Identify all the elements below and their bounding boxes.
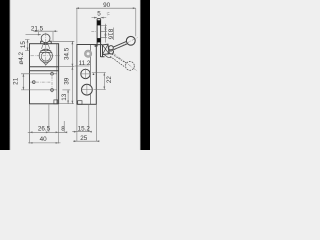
clevis foot (104, 55, 111, 58)
knob top ext line + arrow (26, 34, 41, 36)
inner right vertical line (56, 44, 58, 104)
svg-text:34.5: 34.5 (63, 47, 70, 60)
body section line 1 (30, 66, 59, 68)
front bottom ext lines (30, 105, 65, 144)
svg-text:16: 16 (107, 32, 114, 40)
11.2 leader underline (75, 65, 90, 67)
dim 5 lines (92, 17, 107, 19)
lever arm up (113, 41, 128, 50)
boss centerlines front view (dash-dot) (31, 55, 61, 57)
dim 15 line (27, 40, 29, 51)
dim 13 line (67, 90, 69, 104)
dim 8/6 line (104, 24, 106, 43)
svg-text:22: 22 (106, 76, 113, 84)
svg-text:15.2: 15.2 (78, 126, 91, 133)
svg-text:26.5: 26.5 (38, 126, 51, 133)
svg-text:5: 5 (97, 10, 101, 17)
svg-text:40: 40 (40, 136, 48, 143)
lever axis down (dash-dot) (109, 50, 138, 71)
hole left (32, 81, 35, 84)
dim 34.5/39 shared line (71, 41, 73, 103)
dim 21.5 line (34, 30, 58, 32)
dim 25 line (73, 140, 98, 142)
left black bar (0, 0, 9, 150)
port circle top (86, 51, 91, 56)
dashed lever arm down (110, 54, 126, 67)
mount plate (93, 45, 102, 47)
side body rect (77, 45, 96, 105)
dim 40 line (28, 142, 61, 144)
lever axis up (dash-dot) (105, 37, 138, 55)
stem (97, 19, 101, 47)
side inner vertical (89, 45, 91, 105)
stem centerline (dash-dot) (91, 31, 97, 33)
plunger washer lines (40, 51, 53, 53)
stem seal top (black) (97, 20, 101, 25)
svg-text:8: 8 (61, 126, 65, 133)
bottom-right notch (54, 100, 58, 104)
ball knob (126, 36, 135, 45)
dim 26.5/8 line (28, 131, 67, 133)
svg-text:21.5: 21.5 (31, 25, 44, 32)
dim 8/6 ext lines (101, 25, 107, 37)
ext 41.3 (52, 40, 74, 42)
svg-text:39: 39 (64, 77, 71, 85)
plunger stem (44, 42, 47, 44)
ext ticks (72, 41, 74, 103)
boss circle (39, 49, 52, 62)
svg-text:11.2: 11.2 (79, 60, 91, 67)
left hole centerline (dash-dot) (30, 81, 50, 83)
dashed ball (125, 62, 134, 71)
knob circle (41, 34, 50, 43)
tiny marks right of 5 (107, 12, 110, 15)
clevis cross braces (103, 44, 110, 54)
svg-text:25: 25 (80, 135, 88, 142)
top step recess (41, 41, 52, 44)
body section line 2 (30, 70, 59, 72)
plunger collar (42, 45, 50, 49)
mount column (101, 42, 105, 57)
port circle mid (81, 69, 90, 78)
dim 21 line (22, 74, 24, 90)
svg-text:15: 15 (20, 41, 27, 49)
svg-text:21: 21 (13, 77, 20, 85)
plunger bottom V (43, 62, 49, 65)
clevis block (103, 44, 110, 54)
pivot boss circles (109, 46, 114, 51)
dim 90 line (76, 7, 136, 9)
dim 15.2 line (72, 131, 91, 133)
stem seal bottom (black) (97, 38, 101, 42)
dim 90 ext lines (77, 9, 136, 44)
right holes centerline (dash-dot) (51, 71, 53, 94)
hole top-right (51, 72, 54, 75)
svg-text:13: 13 (61, 93, 68, 101)
port circle bottom (82, 84, 93, 95)
dim 21.5 arrows (35, 30, 56, 32)
body rect (30, 44, 59, 104)
side bottom-left notch (78, 101, 82, 105)
boss inner circle (41, 52, 50, 61)
side bottom ext lines (77, 105, 96, 142)
svg-text:ø4.2: ø4.2 (18, 52, 25, 65)
svg-text:90: 90 (103, 2, 111, 9)
dim 22 line (103, 73, 105, 90)
bottom ext 103 (59, 103, 74, 105)
ext 66.4 (59, 66, 74, 68)
hole bottom-right (51, 89, 54, 92)
right black bar (141, 0, 150, 150)
